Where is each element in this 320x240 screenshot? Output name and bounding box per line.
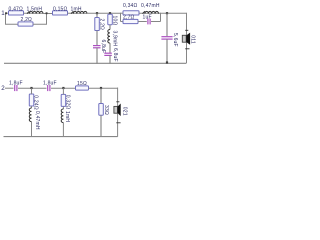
right rail top circuit bbox=[186, 13, 188, 63]
svg-text:0,15Ω: 0,15Ω bbox=[53, 7, 68, 13]
resistor R 0,15 ohm bbox=[53, 7, 68, 15]
junction B dot bbox=[109, 12, 111, 14]
svg-text:2,2Ω: 2,2Ω bbox=[21, 17, 33, 23]
wire R3 to L2 bbox=[68, 12, 88, 14]
svg-text:021: 021 bbox=[121, 107, 127, 116]
branch2 wire to rail bbox=[62, 122, 64, 136]
shunt capacitor 5,6uF bbox=[161, 13, 178, 47]
branch B wire to rail bbox=[109, 55, 111, 63]
branch1 resistor (vertical) bbox=[29, 94, 38, 110]
parallel block right connector bbox=[160, 13, 162, 22]
speaker 011 bbox=[182, 33, 195, 45]
speaker 011 minus tick bbox=[185, 29, 188, 31]
wire node2 to C1 bbox=[5, 87, 14, 89]
bottom rail bottom circuit bbox=[4, 136, 118, 138]
branch2 wire bbox=[62, 88, 64, 94]
wire node1 to R1 bbox=[5, 12, 9, 14]
right rail bottom circuit bbox=[117, 88, 119, 137]
series capacitor 1,8uF #2 bbox=[43, 81, 57, 92]
parallel block left connector bbox=[120, 13, 122, 22]
svg-text:1mH: 1mH bbox=[71, 7, 82, 13]
junction dot shunt cap bbox=[166, 12, 168, 14]
junction dot branch1 bbox=[30, 87, 32, 89]
bottom branch of block: wire bbox=[121, 21, 124, 23]
junction dot at node1 loop bbox=[5, 12, 7, 14]
branch B wire bbox=[109, 25, 111, 30]
junction dot shunt 33 ohm bbox=[100, 87, 102, 89]
inductor L 1,5mH bbox=[27, 7, 44, 14]
wire resistor to cap bbox=[138, 21, 147, 23]
branch2 resistor (vertical) bbox=[61, 94, 70, 109]
branch A: resistor (vertical) bbox=[95, 13, 105, 30]
resistor R 0,47 ohm bbox=[9, 7, 24, 15]
top branch inductor 0,47mH bbox=[141, 3, 160, 14]
svg-text:5,6uF: 5,6uF bbox=[172, 33, 178, 47]
svg-text:6,8uF: 6,8uF bbox=[112, 48, 118, 62]
svg-text:0,47Ω: 0,47Ω bbox=[9, 7, 24, 13]
branch2 inductor 1mH (vertical) bbox=[61, 109, 70, 123]
series capacitor 1,8uF #1 bbox=[9, 81, 23, 92]
svg-text:0,47mH: 0,47mH bbox=[34, 111, 40, 130]
bottom branch resistor 2,7 ohm bbox=[123, 14, 138, 23]
svg-text:0,34Ω: 0,34Ω bbox=[123, 3, 138, 9]
junction dot loop rejoin bbox=[46, 12, 48, 14]
junction of 5,6uF branch with bottom rail bbox=[166, 61, 168, 63]
svg-text:011: 011 bbox=[189, 35, 195, 44]
top branch resistor 0,34 ohm bbox=[123, 3, 139, 15]
wire R15 to corner bbox=[89, 87, 118, 89]
branch A wire to rail bbox=[96, 48, 98, 64]
svg-text:1mH: 1mH bbox=[64, 111, 70, 122]
bottom branch capacitor 1uF (vertical plates) bbox=[143, 14, 152, 24]
wire C1 to C2 bbox=[18, 87, 47, 89]
bottom rail top circuit bbox=[4, 62, 187, 64]
svg-text:1: 1 bbox=[1, 10, 5, 17]
branch B inductor 3,9mH (vertical) bbox=[108, 30, 118, 47]
speaker 011 plus tick bbox=[185, 48, 189, 50]
svg-text:2,7Ω: 2,7Ω bbox=[123, 14, 135, 20]
speaker 021 minus tick bbox=[116, 101, 119, 103]
parallel loop with resistor 2,2 ohm bbox=[6, 13, 47, 26]
svg-text:2,2Ω: 2,2Ω bbox=[98, 19, 104, 31]
junction A dot bbox=[96, 12, 98, 14]
junction dot branch2 bbox=[62, 87, 64, 89]
speaker 021 plus tick bbox=[116, 122, 120, 124]
speaker 021 bbox=[114, 104, 127, 117]
inductor L 1mH bbox=[71, 7, 88, 14]
shunt cap wire to rail bbox=[166, 39, 168, 64]
branch1 wire bbox=[31, 88, 33, 94]
svg-text:1,8uF: 1,8uF bbox=[9, 81, 23, 87]
wire to inductor bbox=[121, 12, 124, 14]
svg-text:1,5mH: 1,5mH bbox=[27, 7, 43, 13]
wire cap to right connector bbox=[151, 21, 161, 23]
svg-text:1,8uF: 1,8uF bbox=[43, 81, 57, 87]
wire R1 to L1 bbox=[24, 12, 44, 14]
branch A wire bbox=[96, 31, 98, 46]
svg-text:0,32Ω: 0,32Ω bbox=[64, 95, 70, 110]
svg-text:15Ω: 15Ω bbox=[77, 81, 87, 87]
branch B wire bbox=[109, 43, 111, 53]
svg-text:1uF: 1uF bbox=[143, 14, 152, 20]
series resistor 15 ohm bbox=[76, 81, 89, 90]
wire L1 to R3 bbox=[43, 13, 53, 15]
main wire L2 to parallel block bbox=[87, 12, 121, 14]
branch1 inductor 0,47mH (vertical) bbox=[29, 108, 40, 130]
svg-text:33Ω: 33Ω bbox=[103, 105, 109, 115]
branch A capacitor 6,8uF (horizontal plates) bbox=[93, 40, 106, 54]
shunt resistor 33 ohm (vertical) bbox=[99, 88, 109, 115]
svg-text:3,9mH: 3,9mH bbox=[112, 31, 118, 47]
branch B capacitor 6,8uF bbox=[104, 48, 118, 62]
svg-text:0,47mH: 0,47mH bbox=[141, 3, 160, 9]
branch B: resistor (vertical) bbox=[108, 14, 118, 25]
shunt 33 wire to rail bbox=[100, 115, 102, 137]
svg-text:6,8uF: 6,8uF bbox=[100, 40, 106, 54]
svg-text:10Ω: 10Ω bbox=[111, 16, 117, 26]
svg-text:2: 2 bbox=[1, 85, 5, 92]
wire C2 to R15 bbox=[51, 87, 76, 89]
main wire block to corner bbox=[159, 12, 187, 14]
branch1 wire to rail bbox=[31, 121, 33, 136]
svg-text:0,24Ω: 0,24Ω bbox=[32, 95, 38, 110]
